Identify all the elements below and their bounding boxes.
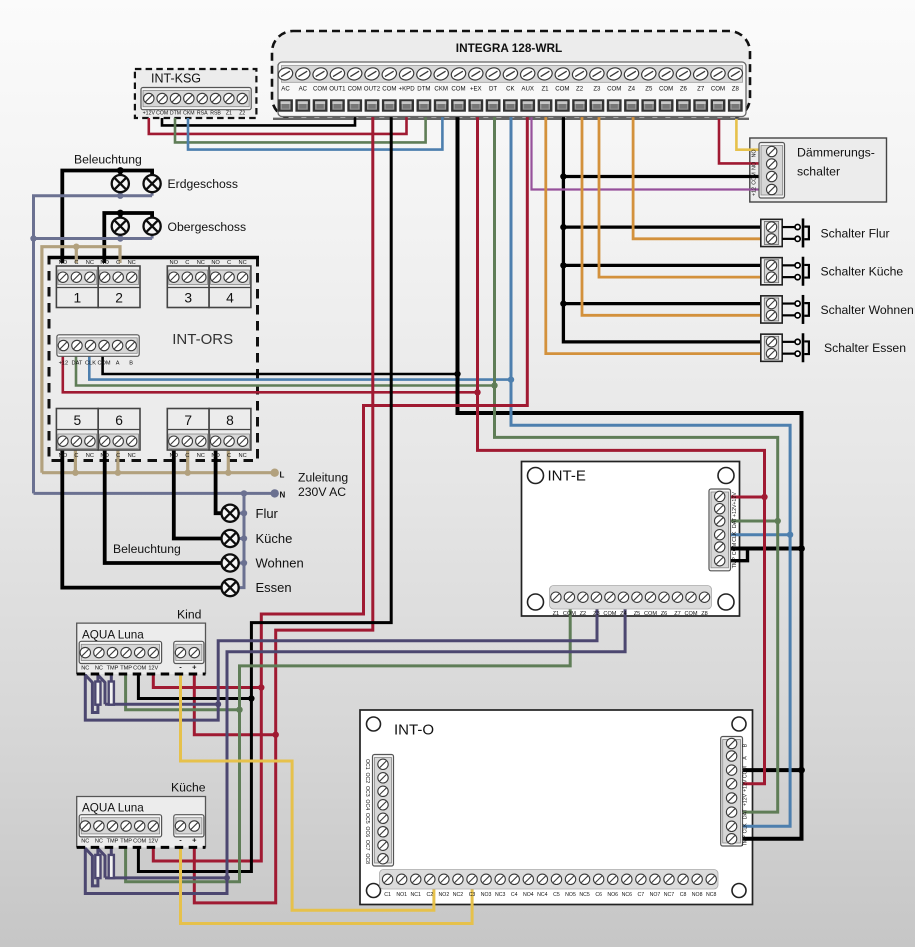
svg-text:NC: NC [95,665,103,671]
svg-text:CLK: CLK [732,531,738,542]
svg-text:Küche: Küche [256,531,293,546]
svg-text:TMP: TMP [732,557,738,569]
INT-O bus terminal strip [721,737,743,847]
svg-text:DTM: DTM [417,86,430,93]
wire relay 8 NO to Flur lamp [216,450,222,513]
junction DT bus / INT-ORS DAT [491,382,497,388]
switch Schalter Wohnen [761,296,782,323]
wire COM riser to switches [563,117,763,342]
wire COM: INT-KSG COM to INTEGRA COM [162,117,355,126]
wire COM branch to Kind keypad [138,674,251,699]
svg-text:Küche: Küche [171,781,206,795]
svg-text:Schalter Flur: Schalter Flur [821,226,890,240]
wire OUT2 to keypad + terminals [194,117,372,903]
svg-text:INT-ORS: INT-ORS [172,331,233,348]
wire stub to Obergeschoss lamp 1 [118,213,122,218]
svg-text:Z6: Z6 [680,86,688,93]
junction +EX bus INT-E [761,494,767,500]
wire CLK: INT-ORS CLK bus line [89,356,511,380]
Daemmerungsschalter terminal strip [759,143,785,199]
svg-text:NC8: NC8 [706,892,716,898]
svg-text:RSA: RSA [197,111,208,117]
resistor R1 Kind 2.2k EOL [95,682,100,705]
lamp Wohnen [222,554,239,571]
svg-text:Flur: Flur [256,506,279,521]
junction COM bus INT-E [798,545,805,552]
svg-text:NO6: NO6 [607,892,618,898]
wire N drop to room lamps [239,493,244,587]
wire L stub relay C x=117.9 [116,450,119,473]
terminal N Zuleitung [271,489,279,497]
svg-text:A: A [743,756,749,760]
svg-text:NO: NO [59,260,68,266]
wire L stub relay C x=75.4 [74,450,77,473]
wire zone Kueche to INT-E Z4 [85,609,625,894]
svg-text:COM: COM [711,86,725,93]
svg-text:COM: COM [752,172,758,185]
INT-O relay output strip C1..NC8 [380,870,719,890]
relay module INT-ORS enclosure [49,258,258,461]
svg-text:OC3: OC3 [364,786,370,797]
svg-text:OC5: OC5 [364,813,370,824]
resistor R1 Kueche 2.2k EOL [95,855,100,878]
svg-text:COM: COM [451,86,465,93]
wire N stub lamp y=563.0 [239,562,244,565]
svg-text:1: 1 [73,291,81,306]
keypad AQUA Luna (Kueche) enclosure [77,797,206,848]
svg-text:COM: COM [98,360,111,366]
svg-text:Z5: Z5 [634,611,641,617]
svg-text:Z3: Z3 [593,86,601,93]
svg-text:OC8: OC8 [364,853,370,864]
svg-text:NO1: NO1 [396,892,407,898]
svg-text:Kind: Kind [177,608,201,622]
svg-text:NC: NC [128,453,136,459]
wire N stub Obergeschoss lamp 1 [119,235,122,239]
wire COM bus: INTEGRA COM to expanders, ends INT-O TMP [458,117,802,839]
junction COM Schalter Flur [560,224,566,230]
svg-text:OC1: OC1 [364,759,370,770]
svg-text:COM: COM [348,86,362,93]
svg-text:OUT1: OUT1 [329,86,346,93]
svg-text:AUX: AUX [521,86,534,93]
wire +12: INT-ORS +12 bus line [63,356,478,392]
wire L feed Obergeschoss lamps [104,213,152,263]
INT-KSG terminal strip [141,88,251,110]
svg-text:Z4: Z4 [628,86,636,93]
junction Obergeschoss N [117,235,123,241]
keypad AQUA Luna Kind internals [79,641,161,663]
wire + branch to Kind keypad [194,674,275,735]
svg-text:NC5: NC5 [579,892,589,898]
svg-text:+EX: +EX [470,86,482,93]
svg-text:NO: NO [59,453,68,459]
svg-text:L: L [280,471,285,480]
svg-text:C8: C8 [680,892,687,898]
svg-text:NO7: NO7 [650,892,661,898]
junction keypad TMP bus [236,707,242,713]
svg-text:Wohnen: Wohnen [256,556,304,571]
wire COM: INT-ORS COM bus line [103,356,458,374]
wire L: relay C terminals to L riser [42,247,120,473]
svg-text:OC2: OC2 [364,772,370,783]
svg-text:NC: NC [238,453,246,459]
svg-text:C5: C5 [553,892,560,898]
junction Erdgeschoss L [117,167,124,174]
relay 1 lighting Erdgeschoss [56,266,98,308]
svg-text:C: C [116,453,120,459]
junction keypad 12V bus [258,684,264,690]
wire L stub relay 1 C [75,247,78,263]
wire L bus bottom [42,471,275,474]
svg-text:B: B [743,743,749,747]
svg-text:DT: DT [489,86,497,93]
svg-text:NC4: NC4 [537,892,547,898]
switch Schalter Küche [761,258,782,285]
junction Kind zone [215,701,221,707]
wire N riser left side [34,196,153,494]
wire Kind - to INT-O C2 [181,674,434,910]
svg-text:NC: NC [95,839,103,845]
junction keypad + bus [273,732,279,738]
svg-text:+12: +12 [752,187,758,196]
svg-text:C3: C3 [469,892,476,898]
svg-text:NC2: NC2 [453,892,463,898]
junction COM Schalter Wohnen [560,300,566,306]
wire N stub Obergeschoss lamp 2 [151,235,154,239]
wire zone Kind to INT-E Z3 [85,609,597,720]
lamp Obergeschoss 2 [144,218,161,235]
junction DT bus INT-E [775,518,781,524]
wire stub to Erdgeschoss lamp 1 [118,171,122,176]
svg-text:INT-O: INT-O [394,722,434,739]
svg-text:NC6: NC6 [622,892,632,898]
svg-text:CLK: CLK [85,360,96,366]
svg-text:OC6: OC6 [364,826,370,837]
wire Kueche zone 2 return [105,876,227,879]
INT-O output strip OC1-OC8 [373,755,394,867]
svg-text:COM: COM [133,665,146,671]
svg-text:Z6: Z6 [661,611,668,617]
resistor R2 Kind 2.2k EOL [109,682,114,705]
wire TMP branch Kind keypad [126,674,240,710]
switch Schalter Essen [761,334,782,361]
svg-text:NC: NC [86,453,94,459]
relay 7 lamp Kueche [167,409,209,451]
svg-text:6: 6 [115,413,123,428]
svg-text:NC: NC [81,665,89,671]
svg-text:NC7: NC7 [664,892,674,898]
svg-text:C6: C6 [595,892,602,898]
junction L relay 1 [73,244,79,250]
svg-text:Erdgeschoss: Erdgeschoss [168,177,238,191]
junction keypad COM bus [248,695,254,701]
svg-text:NO5: NO5 [565,892,576,898]
wire INTEGRA COM to Daemmerungsschalter NO2 [719,119,763,163]
svg-text:NO2: NO2 [439,892,450,898]
wire DT bus: INTEGRA DT to expanders, ends INT-O DAT [495,117,778,813]
expander INT-E board [522,462,740,617]
svg-text:NC: NC [197,260,205,266]
svg-text:Zuleitung: Zuleitung [298,470,348,484]
junction N lamp [241,560,247,566]
svg-text:COM: COM [684,611,697,617]
wire +12V: INT-KSG +12V to INTEGRA +KPD [149,117,407,134]
wire N bus bottom [34,492,275,495]
svg-text:B: B [129,360,133,366]
wire Kueche EOL loop 1 [86,849,98,886]
relay 3 [167,266,209,308]
svg-text:Schalter Wohnen: Schalter Wohnen [821,303,914,317]
INTEGRA 128-WRL terminal strip [278,62,746,117]
svg-text:Beleuchtung: Beleuchtung [113,542,181,556]
svg-text:TMP: TMP [107,839,119,845]
wire AUX +12 to Daemmerungsschalter +12 [532,117,764,190]
INTEGRA strip lower shadow line [273,118,749,120]
junction CK bus / INT-ORS CLK [508,376,514,382]
svg-text:RSB: RSB [210,111,221,117]
svg-text:DAT: DAT [732,517,738,528]
svg-text:Z1: Z1 [541,86,549,93]
svg-text:NC: NC [197,453,205,459]
svg-text:AC: AC [281,86,290,93]
svg-text:COM: COM [732,543,738,555]
svg-text:8: 8 [226,413,234,428]
wire Kind zone 2 return [105,703,218,706]
svg-text:NO: NO [100,260,109,266]
svg-text:NC1: NC1 [411,892,421,898]
svg-text:Z1: Z1 [226,111,232,117]
svg-text:+12V: +12V [743,779,749,792]
keypad INT-KSG enclosure [135,69,257,118]
svg-text:Z4: Z4 [620,611,627,617]
svg-text:C1: C1 [384,892,391,898]
svg-text:+12V: +12V [143,111,156,117]
svg-text:7: 7 [184,413,192,428]
wire Kueche - to INT-O C3 [181,847,473,923]
svg-text:+12V: +12V [743,793,749,806]
junction N lamp [241,535,247,541]
wire COM branch to INT-E COM [726,547,802,551]
INT-E mounting holes [528,468,544,484]
keypad Küche dashed bottom edge [77,846,206,849]
svg-text:NO: NO [170,453,179,459]
wire DTM: INT-KSG DTM to INTEGRA DTM [175,117,426,143]
jumper INT-E COM to TMP [730,549,748,561]
svg-text:COM: COM [659,86,673,93]
expander INT-O board [360,710,753,905]
wire AUX +12V to keypads 12V [153,117,527,862]
svg-text:OC4: OC4 [364,799,370,810]
svg-text:schalter: schalter [797,165,840,179]
svg-text:C: C [74,260,78,266]
svg-text:NO4: NO4 [523,892,534,898]
svg-text:+12V: +12V [732,504,738,517]
svg-text:12V: 12V [148,665,158,671]
svg-text:4: 4 [226,291,234,306]
svg-text:Z8: Z8 [732,86,740,93]
lamp Essen [222,579,239,596]
svg-text:DTM: DTM [170,111,181,117]
relay 6 lamp Wohnen [98,409,140,451]
wire CK branch to INT-E CLK [726,533,790,536]
svg-text:Z3: Z3 [593,611,600,617]
svg-text:NC: NC [128,260,136,266]
svg-text:C7: C7 [638,892,645,898]
keypad AQUA Luna (Kind) enclosure [77,623,206,674]
svg-text:Essen: Essen [256,580,292,595]
junction COM Daemmerungsschalter [560,173,566,179]
wire COM branch Schalter Wohnen [563,302,763,305]
svg-text:COM: COM [156,111,168,117]
svg-text:Schalter Essen: Schalter Essen [824,341,906,355]
keypad AQUA Luna Küche internals [79,815,161,837]
svg-text:AQUA Luna: AQUA Luna [82,628,144,641]
svg-text:C2: C2 [426,892,433,898]
control panel INTEGRA 128-WRL enclosure [272,31,750,119]
svg-text:COM: COM [644,611,657,617]
lamp Flur [222,505,239,522]
svg-text:Z2: Z2 [239,111,245,117]
svg-text:COM: COM [382,86,396,93]
svg-text:+12: +12 [59,360,69,366]
svg-text:OC7: OC7 [364,840,370,851]
svg-text:INT-KSG: INT-KSG [151,72,201,86]
svg-text:Schalter Küche: Schalter Küche [821,265,904,279]
svg-text:COM: COM [563,611,576,617]
lamp Obergeschoss 1 [112,218,129,235]
junction Erdgeschoss N [117,193,123,199]
wire N stub Erdgeschoss lamp 1 [119,192,122,196]
relay 5 lamp Essen [56,409,98,451]
svg-text:DAT: DAT [743,808,749,819]
wire L feed Erdgeschoss lamps [62,171,152,264]
wire COM branch Schalter Kueche [563,264,763,267]
svg-text:5: 5 [73,413,81,428]
svg-text:INTEGRA 128-WRL: INTEGRA 128-WRL [456,41,562,55]
junction CK bus INT-E [787,532,793,538]
svg-text:NO: NO [170,260,179,266]
svg-text:TMP: TMP [120,665,132,671]
svg-text:Z2: Z2 [576,86,584,93]
wire L stub relay C x=187.7 [186,450,189,473]
relay 4 [209,266,251,308]
wire CKM: INT-KSG CKM to INTEGRA CKM [188,117,442,150]
svg-text:C: C [74,453,78,459]
svg-text:Z8: Z8 [701,611,708,617]
svg-text:NO: NO [211,453,220,459]
wire COM branch Daemmerungsschalter [563,175,763,178]
wire relay 5 NO to Essen lamp [62,450,221,588]
INT-E zone terminal strip [550,586,712,610]
junction N drop [241,490,247,496]
svg-text:230V AC: 230V AC [298,485,346,499]
keypad Kind dashed bottom edge [77,673,206,676]
wire +EX branch to INT-E +12V [726,496,765,499]
svg-text:2: 2 [115,291,123,306]
INT-O mounting holes [367,717,381,731]
wire TMP: keypads TMP to INT-E COM [126,609,571,882]
lamp Erdgeschoss 1 [112,175,129,192]
svg-text:C: C [116,260,120,266]
svg-text:COM: COM [743,766,749,778]
wire Kueche R1 top stub [96,848,99,855]
svg-text:COM: COM [603,611,616,617]
svg-text:3: 3 [184,291,192,306]
wire DT branch to INT-E DAT [726,520,778,523]
svg-text:TMP: TMP [743,835,749,846]
junction L bus [72,470,78,476]
svg-text:NO: NO [752,149,758,157]
INT-ORS solid top edge [48,256,260,259]
wire Kind EOL loop 2 [98,676,105,705]
wire COM branch to INT-O COM [743,768,802,772]
wire +EX bus: INTEGRA +EX to expanders, ends INT-O +12V [478,117,765,784]
svg-text:+: + [192,836,197,845]
svg-text:DAT: DAT [72,360,83,366]
svg-text:NC: NC [238,260,246,266]
svg-text:C4: C4 [511,892,518,898]
svg-text:Z7: Z7 [674,611,681,617]
resistor R2 Kueche 2.2k EOL [109,855,114,878]
INTEGRA terminal squares [278,99,293,111]
lamp Erdgeschoss 2 [144,175,161,192]
relay 8 lamp Flur [209,409,251,451]
lamp Kueche [222,530,239,547]
svg-text:NC: NC [81,839,89,845]
junction N lamp [241,510,247,516]
svg-text:+KPD: +KPD [399,86,416,93]
svg-text:COM: COM [313,86,327,93]
wire COM to keypads COM [138,117,391,872]
wire CK bus: INTEGRA CK to expanders, ends INT-O CLK [511,117,790,827]
svg-text:INT-E: INT-E [548,468,586,485]
svg-text:C: C [185,260,189,266]
terminal L Zuleitung [271,469,279,477]
junction Obergeschoss L [117,210,124,217]
svg-text:OUT2: OUT2 [364,86,381,93]
junction COM Schalter Kueche [560,262,566,268]
svg-text:CLK: CLK [743,823,749,834]
switch Schalter Flur [761,219,782,246]
INT-ORS bus terminal strip [57,335,139,357]
wire Kind R1 top stub [96,675,99,682]
svg-text:C: C [227,260,231,266]
svg-text:Z1: Z1 [553,611,560,617]
INT-E bus terminal strip [709,489,731,571]
svg-text:A: A [116,360,120,366]
svg-text:NC3: NC3 [495,892,505,898]
junction N riser [30,235,36,241]
svg-text:Dämmerungs-: Dämmerungs- [797,146,875,160]
svg-text:C: C [185,453,189,459]
wire Kueche R2 top stub [110,848,113,855]
twilight switch Daemmerungsschalter enclosure [750,138,887,202]
junction Kueche zone [224,875,230,881]
wire Kind EOL loop 1 [86,676,98,713]
svg-text:AQUA Luna: AQUA Luna [82,802,144,815]
svg-text:NO: NO [752,162,758,170]
svg-text:Z5: Z5 [645,86,653,93]
svg-text:CKM: CKM [183,111,195,117]
junction COM bus INT-O [798,767,805,774]
wire 12V branch to Kind keypad [153,674,261,688]
relay 2 lighting Obergeschoss [98,266,140,308]
junction L bus [185,470,191,476]
svg-text:+12V: +12V [732,492,738,505]
svg-text:COM: COM [555,86,569,93]
wire Z2 to Schalter Wohnen [582,117,763,316]
